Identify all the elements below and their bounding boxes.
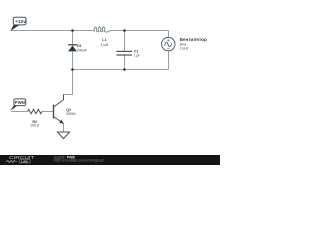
svg-text:1 µH: 1 µH <box>100 43 108 47</box>
svg-text:2N3904: 2N3904 <box>66 112 75 116</box>
svg-text:http://circuitlab.com/c/bmgrze: http://circuitlab.com/c/bmgrze2 <box>54 159 105 163</box>
svg-text:1N4148: 1N4148 <box>77 48 87 52</box>
svg-text:L1: L1 <box>102 38 106 42</box>
svg-text:PWM: PWM <box>15 100 26 105</box>
svg-text:100 Ω: 100 Ω <box>30 124 39 128</box>
svg-text:1 kHz: 1 kHz <box>180 46 189 50</box>
svg-text:+12v: +12v <box>15 19 26 25</box>
svg-text:LAB: LAB <box>21 159 28 163</box>
svg-text:1 µF: 1 µF <box>134 54 141 58</box>
